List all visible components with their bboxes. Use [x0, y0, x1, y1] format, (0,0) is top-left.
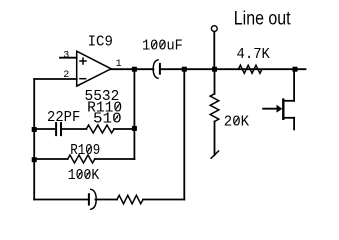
wire R109 row left	[34, 158, 67, 160]
svg-text:20K: 20K	[224, 114, 250, 130]
svg-text:Line out: Line out	[234, 8, 291, 29]
resistor 4.7K zigzag	[238, 65, 262, 73]
capacitor 100uF curved plate	[153, 60, 158, 79]
svg-text:4.7K: 4.7K	[237, 47, 271, 63]
resistor 20K zigzag vertical	[210, 94, 219, 122]
transistor Q1 source vertical	[293, 118, 295, 130]
transistor Q1 source stub	[284, 117, 294, 119]
wire 22PF to R110	[62, 128, 86, 130]
wire pin 3 stub	[60, 57, 77, 59]
junction node after 100uF	[182, 67, 187, 72]
wire pin 2 to left rail	[34, 78, 76, 80]
wire main after cap	[161, 68, 305, 70]
wire 20K top lead	[214, 69, 216, 94]
wire 20K bottom lead	[214, 122, 216, 156]
op-amp minus symbol (pin 2 input)	[80, 78, 86, 80]
wire right drop from after-cap node	[183, 69, 185, 199]
resistor R110 zigzag	[86, 125, 114, 133]
zero slashes	[78, 42, 239, 178]
continuation slash at 20K bottom	[211, 151, 218, 158]
capacitor 22PF plate 2	[60, 123, 62, 135]
svg-text:1: 1	[116, 59, 122, 70]
junction node transistor drain	[293, 67, 298, 72]
junction node left rail / 22PF row	[32, 127, 37, 132]
capacitor 100uF straight plate	[159, 64, 161, 74]
wire bottom row right segment	[143, 199, 184, 201]
svg-text:100uF: 100uF	[142, 38, 183, 54]
transistor Q1 drain vertical	[293, 69, 295, 101]
capacitor 22PF plate 1	[55, 123, 57, 135]
resistor R109 zigzag	[68, 155, 95, 163]
resistor bottom zigzag	[117, 195, 143, 204]
circle line out terminal	[211, 26, 217, 32]
capacitor bottom electrolytic straight plate	[88, 194, 90, 204]
junction node feedback rail / 22PF row	[132, 126, 137, 131]
svg-text:100K: 100K	[68, 168, 100, 184]
svg-text:22PF: 22PF	[47, 110, 80, 126]
junction node line out	[212, 67, 217, 72]
wire bottom row left segment	[34, 199, 88, 201]
svg-text:2: 2	[63, 70, 69, 81]
junction node left rail / R109 row	[32, 157, 37, 162]
op-amp plus symbol (pin 3 input)	[80, 58, 86, 64]
transistor Q1 channel bar	[282, 100, 284, 119]
capacitor bottom electrolytic curved plate	[91, 189, 96, 209]
transistor Q1 gate wire	[263, 108, 277, 110]
svg-text:R109: R109	[70, 143, 100, 159]
junction node at op-amp output	[132, 67, 137, 72]
wire feedback rail vertical	[133, 69, 135, 159]
wire R110 to rail	[114, 128, 134, 130]
wire line out terminal drop	[213, 32, 215, 70]
wire op-amp output	[111, 68, 153, 70]
wire 22PF row left	[34, 128, 55, 130]
svg-text:3: 3	[63, 50, 69, 61]
op-amp U IC9 triangle	[77, 51, 111, 86]
wire R109 row right	[95, 158, 135, 160]
svg-text:510: 510	[93, 112, 122, 128]
transistor Q1 drain stub	[284, 100, 294, 102]
wire left rail vertical	[33, 79, 35, 200]
wire bottom row middle segment	[95, 199, 117, 201]
transistor Q1 gate arrowhead	[277, 105, 283, 113]
svg-text:IC9: IC9	[88, 34, 113, 50]
